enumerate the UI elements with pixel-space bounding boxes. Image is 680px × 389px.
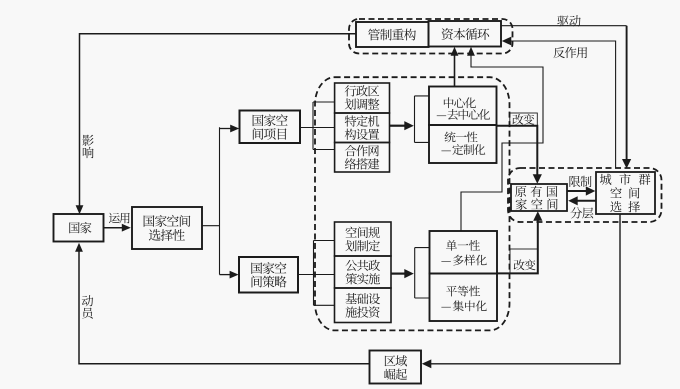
wire yingxiang: 管制重构 left -> down -> 国家 top xyxy=(80,34,357,210)
thick arrow stack2 -> pair2 xyxy=(391,273,405,275)
box guanzhi-chonggou (管制重构) xyxy=(356,22,429,47)
arrowhead into 原有国家空间 bottom xyxy=(533,211,542,221)
label qudong (驱动) xyxy=(557,15,580,26)
wire split from 国家空间选择性 xyxy=(202,127,220,274)
arrowhead xianzhi xyxy=(586,186,596,195)
box guojia (国家) xyxy=(54,214,104,242)
label dongyuan (动员) xyxy=(82,295,93,319)
arrowhead into 资本循环 bottom (right) xyxy=(467,47,475,56)
box zhongxinhua (中心化—去中心化) xyxy=(429,87,497,126)
arrow fenceng: 城市群空间选择 -> 原有国家空间 xyxy=(573,200,596,202)
wire fanzuoyong: dashed-right top -> 资本循环 xyxy=(508,41,616,168)
arrowhead into 资本循环 bottom (left) xyxy=(451,47,459,56)
thick arrow stack1 -> pair1 xyxy=(390,125,406,127)
box guojia-kongjian-celue (国家空间策略) xyxy=(239,257,298,293)
wire gaibian-top: 统一性 border -> 原有国家空间 top xyxy=(497,126,538,179)
box jichu-sheshi (基础设施投资) xyxy=(335,288,392,323)
arrowhead into 原有国家空间 top xyxy=(533,174,542,184)
wire 城市群空间选择 -> 区域崛起 xyxy=(427,215,621,364)
box gonggong-zhengce (公共政策实施) xyxy=(335,256,392,288)
arrowhead into 国家 bottom xyxy=(75,243,83,252)
wire zigzag 单一性 top -> 资本循环 bottom xyxy=(461,51,543,231)
wire bracket into 单一性/平等性 xyxy=(415,248,430,298)
arrowhead into 国家 top xyxy=(76,205,84,214)
wire bracket into 中心化/统一性 xyxy=(415,96,430,142)
arrowhead fanzuoyong into 资本循环 right xyxy=(502,37,512,46)
wire to 国家空间策略 xyxy=(220,274,235,276)
box guojia-kongjian-xuanzexing (国家空间选择性) xyxy=(132,207,202,249)
box chengshiqun (城市群空间选择) xyxy=(596,172,655,214)
wire gaibian-bottom: 单一性 border -> 原有国家空间 bottom xyxy=(497,216,538,274)
arrow xianzhi: 原有国家空间 -> 城市群空间选择 xyxy=(567,190,591,192)
dashed container top (管制重构/资本循环) xyxy=(349,19,513,54)
label gaibian-top (改变) xyxy=(513,114,535,125)
label gaibian-bottom (改变) xyxy=(514,259,536,270)
arrowhead stack2->pair2 xyxy=(404,269,414,278)
box tongyixing (统一性—定制化) xyxy=(429,125,497,163)
box danyixing (单一性—多样化) xyxy=(430,231,498,274)
box teding-jigou (特定机构设置) xyxy=(335,113,390,143)
wire yunyong: 国家 -> 国家空间选择性 xyxy=(104,227,128,229)
label xianzhi (限制) xyxy=(569,176,591,187)
label yunyong (运用) xyxy=(109,213,130,224)
arrowhead into 国家空间项目 left xyxy=(230,125,239,133)
box hezuo-wangluo (合作网络搭建) xyxy=(335,143,390,173)
dashed container right (原有国家空间/城市群空间选择) xyxy=(508,168,662,222)
label yingxiang (影响) xyxy=(82,135,93,159)
box guojia-kongjian-xiangmu (国家空间项目) xyxy=(240,111,301,144)
arrowhead qudong down xyxy=(622,159,631,169)
wire to 国家空间项目 xyxy=(220,128,236,130)
label fenceng (分层) xyxy=(570,207,593,218)
wire bracket 国家空间项目 -> stack1 xyxy=(300,102,335,150)
arrowhead into 国家空间策略 left xyxy=(230,271,239,279)
label fanzuoyong (反作用) xyxy=(553,47,587,58)
box kongjian-guihua (空间规划制定) xyxy=(335,222,392,256)
box yuanyou-guojia-kongjian (原有国家空间) xyxy=(511,184,567,211)
box xingzheng-quhua (行政区划调整) xyxy=(335,83,390,113)
arrowhead into 国家空间选择性 left xyxy=(122,224,131,232)
wire 中心化 top -> 资本循环 bottom xyxy=(454,51,456,87)
wire dongyuan: 区域崛起 -> 国家 bottom xyxy=(79,247,370,364)
label frame gaibian-bottom xyxy=(510,249,538,273)
wire qudong: 资本循环 -> 城市群空间选择 xyxy=(501,25,627,27)
dashed container middle (state projects/strategies) xyxy=(315,77,510,330)
box quyu-jueqi (区域崛起) xyxy=(370,351,422,384)
wire bracket 国家空间策略 -> stack2 xyxy=(298,241,335,306)
arrowhead stack1->pair1 xyxy=(404,121,414,130)
box pingdengxing (平等性—集中化) xyxy=(430,274,498,322)
arrowhead fenceng xyxy=(568,196,578,205)
label frame gaibian-top xyxy=(510,113,538,126)
box ziben-xunhuan (资本循环) xyxy=(429,21,502,47)
arrowhead into 区域崛起 right xyxy=(422,359,432,368)
